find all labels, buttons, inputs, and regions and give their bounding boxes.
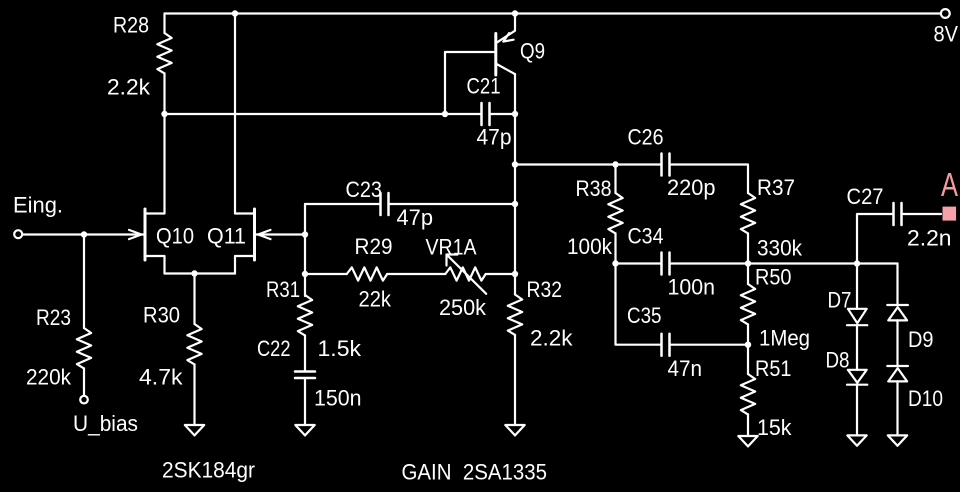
junction Q11 gate / C23 branch [302, 231, 308, 237]
wire C23 branch vertical [304, 204, 306, 296]
junction collector / C26 row [512, 161, 518, 167]
Q10 gate arrowhead [129, 230, 142, 239]
svg-text:D10: D10 [908, 386, 943, 411]
capacitor C35 [662, 334, 670, 356]
svg-text:R30: R30 [143, 303, 180, 328]
svg-text:330k: 330k [757, 236, 803, 261]
svg-text:250k: 250k [439, 295, 487, 320]
svg-text:R50: R50 [755, 265, 792, 290]
svg-text:4.7k: 4.7k [139, 365, 183, 390]
wire Q9 base lead [445, 52, 495, 114]
wire C34 left [616, 262, 662, 264]
wire C27 branch [857, 214, 894, 264]
terminal Eing. input [14, 230, 22, 238]
svg-text:Q10: Q10 [156, 224, 194, 249]
svg-text:Q9: Q9 [520, 39, 545, 64]
junction R38 bottom / C34 row [612, 260, 618, 266]
resistor R30 [187, 274, 201, 426]
wire VR1A to R32 [486, 273, 515, 275]
svg-text:220p: 220p [667, 175, 716, 200]
ground R32 [505, 425, 524, 435]
ground C22 [295, 425, 314, 435]
junction Q9 base / C21 node [442, 111, 448, 117]
terminal U_bias [80, 396, 88, 404]
svg-text:VR1A: VR1A [426, 235, 477, 260]
resistor R23 [77, 235, 91, 395]
wire R38 branch to C35 [616, 264, 662, 345]
wire C23 right [389, 203, 516, 205]
junction C21 right / collector [512, 111, 518, 117]
junction Q11 drain / rail [232, 10, 238, 16]
svg-text:D8: D8 [826, 348, 850, 373]
wire Q9 collector vertical [514, 74, 516, 294]
svg-text:D9: D9 [908, 327, 934, 352]
wire R28 bottom to C21 left [165, 113, 482, 115]
transistor Q9 [496, 14, 515, 76]
svg-text:R23: R23 [36, 305, 71, 330]
wire C26 to R37 top [670, 165, 749, 194]
svg-text:8V: 8V [934, 22, 959, 47]
junction R50 / R51 / C35 [745, 342, 751, 348]
svg-text:U_bias: U_bias [73, 411, 138, 436]
svg-text:C23: C23 [346, 177, 383, 202]
svg-text:2SK184gr: 2SK184gr [162, 458, 255, 483]
svg-text:R29: R29 [355, 234, 393, 259]
wire C35 right [670, 344, 749, 346]
junction sources / R30 [191, 270, 197, 276]
svg-text:22k: 22k [359, 287, 392, 312]
wire C27 to output pad [902, 213, 942, 215]
svg-text:R37: R37 [757, 175, 795, 200]
svg-text:Eing.: Eing. [13, 193, 63, 218]
wire R29 to VR1A [387, 273, 445, 275]
capacitor C21 [482, 103, 490, 125]
svg-text:2.2k: 2.2k [530, 326, 573, 351]
svg-text:47p: 47p [397, 205, 434, 230]
terminal 8V [941, 9, 950, 18]
wire C22 to ground [304, 379, 306, 425]
resistor R28 [157, 14, 171, 115]
Q11 gate arrowhead [258, 230, 271, 239]
junction R29 row / R32 [512, 271, 518, 277]
ground R51 [738, 436, 757, 446]
output pad A [943, 207, 957, 221]
capacitor C34 [662, 253, 670, 275]
transistor Q10 [145, 114, 165, 274]
svg-text:C34: C34 [628, 224, 664, 249]
svg-text:R31: R31 [266, 277, 300, 302]
wire input to Q10 gate [23, 233, 143, 235]
wire C34 right to diodes [670, 262, 898, 264]
svg-text:R28: R28 [113, 13, 149, 38]
wire collector to C26 [515, 163, 662, 165]
capacitor C27 [894, 203, 902, 225]
potentiometer VR1A [445, 255, 486, 294]
svg-text:C26: C26 [628, 125, 664, 150]
resistor R37 [741, 193, 755, 264]
junction R28 bottom node [161, 111, 167, 117]
svg-text:R38: R38 [576, 176, 612, 201]
svg-text:R51: R51 [755, 356, 792, 381]
resistor R51 [741, 345, 755, 436]
diode D9 [887, 264, 908, 321]
resistor R32 [508, 295, 522, 426]
svg-text:C35: C35 [627, 303, 662, 328]
svg-text:2.2k: 2.2k [107, 75, 151, 100]
svg-text:R32: R32 [527, 277, 563, 302]
capacitor C26 [662, 154, 670, 176]
resistor R31 [298, 295, 312, 370]
wire R31 node to R29 [305, 273, 347, 275]
svg-text:100n: 100n [668, 275, 716, 300]
junction C23 / collector [512, 201, 518, 207]
svg-text:1Meg: 1Meg [759, 326, 810, 351]
ground D8 [847, 435, 866, 445]
resistor R50 [741, 264, 755, 345]
svg-text:C21: C21 [467, 74, 501, 99]
junction C27 / D7 branch [854, 260, 860, 266]
resistor R38 [608, 165, 622, 264]
svg-text:47p: 47p [477, 125, 512, 150]
svg-text:47n: 47n [668, 356, 703, 381]
junction R29 row / R31 [302, 271, 308, 277]
wire C21 right to collector [490, 113, 516, 115]
diode D7 [847, 264, 867, 326]
wire Q11 gate [256, 233, 305, 235]
ground D10 [888, 435, 907, 445]
svg-text:220k: 220k [26, 365, 72, 390]
wire 8V power rail [165, 12, 940, 14]
junction R37 / R50 / diode row [745, 260, 751, 266]
svg-text:150n: 150n [314, 386, 362, 411]
ground R30 [185, 425, 204, 435]
svg-text:C22: C22 [257, 336, 291, 361]
diode D10 [887, 320, 908, 435]
wire source join [165, 272, 236, 274]
junction Q9 emitter / rail [512, 10, 518, 16]
svg-text:100k: 100k [567, 234, 613, 259]
junction input / R23 [81, 231, 87, 237]
svg-text:1.5k: 1.5k [318, 336, 362, 361]
wire C23 left [305, 203, 381, 205]
transistor Q11 [235, 14, 255, 274]
svg-text:2.2n: 2.2n [907, 226, 952, 251]
junction R38 top [612, 161, 618, 167]
svg-text:Q11: Q11 [207, 224, 246, 249]
capacitor C22 [295, 372, 315, 379]
resistor R29 [347, 267, 387, 280]
capacitor C23 [381, 193, 389, 215]
svg-text:C27: C27 [847, 184, 884, 209]
diode D8 [847, 325, 867, 435]
svg-text:A: A [941, 166, 958, 203]
svg-text:D7: D7 [828, 288, 852, 313]
svg-text:GAIN 2SA1335: GAIN 2SA1335 [402, 460, 548, 485]
svg-text:15k: 15k [757, 415, 792, 440]
